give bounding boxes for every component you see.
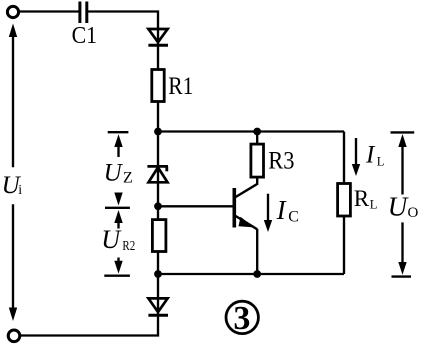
diode D2 (bottom, anode up): [148, 298, 168, 315]
label Ui: [2, 172, 23, 199]
svg-text:I: I: [276, 195, 288, 225]
arrow Ui top (pointing up at terminal): [9, 24, 17, 168]
label C1: [72, 23, 97, 49]
transistor Q1 base bar: [233, 188, 237, 228]
svg-text:3: 3: [233, 300, 250, 337]
label R1: [168, 73, 193, 100]
dimension arrow Uz up: [114, 134, 122, 157]
svg-text:U: U: [101, 225, 122, 254]
node D junction dot: [154, 270, 162, 278]
current arrow IL: [352, 138, 360, 176]
svg-text:U: U: [104, 160, 124, 187]
current arrow Ic: [264, 194, 272, 232]
dimension tick 2 (shared): [105, 207, 130, 209]
transistor Q1 emitter with arrow: [235, 216, 257, 275]
dimension arrow Ur2 down: [114, 258, 122, 274]
arrow Ui bottom (pointing down at terminal): [9, 204, 17, 321]
input terminal top-left: [7, 6, 18, 17]
node C junction dot: [154, 202, 162, 210]
wire right column (top rail to RL): [343, 132, 345, 184]
label R3: [268, 148, 294, 175]
wire RL to bottom rail: [343, 216, 345, 274]
wire base (node C to transistor base): [158, 205, 233, 207]
label Uz: [104, 160, 133, 187]
svg-text:L: L: [370, 197, 378, 211]
svg-text:C: C: [288, 209, 299, 226]
resistor R2: [152, 220, 166, 252]
svg-text:R2: R2: [122, 238, 135, 253]
diode D1 (top, anode up): [148, 29, 168, 45]
resistor RL: [338, 184, 351, 217]
label RL: [354, 186, 378, 212]
wire R2 to node D: [157, 252, 159, 275]
input terminal bottom-left: [8, 330, 20, 342]
node A junction dot: [154, 128, 162, 136]
node E junction dot (emitter): [253, 270, 261, 278]
svg-text:i: i: [18, 183, 22, 198]
dimension arrow Uo down: [398, 222, 406, 274]
wire bottom rail: [158, 273, 344, 275]
svg-text:R3: R3: [268, 148, 294, 175]
label Ur2: [101, 225, 135, 254]
dimension arrow Uz down: [114, 193, 122, 206]
wire node C to resistor R2: [157, 206, 159, 219]
zener diode DZ (cathode bar top): [147, 166, 168, 182]
node B junction dot (R3 top): [253, 128, 261, 136]
wire node D to diode D2: [157, 274, 159, 298]
dimension tick top of Uo: [391, 131, 415, 133]
svg-text:O: O: [408, 205, 419, 221]
dimension tick 3 (bottom of Ur2): [104, 275, 130, 277]
label IL: [365, 142, 384, 169]
label Ic: [276, 195, 299, 226]
capacitor C1: [80, 2, 87, 24]
svg-text:R: R: [354, 186, 370, 211]
wire top from capacitor to corner and down to diode: [88, 12, 158, 30]
wire node A to zener: [157, 132, 159, 183]
figure number 3 circled: [226, 300, 258, 337]
svg-text:I: I: [365, 142, 376, 169]
svg-text:R1: R1: [168, 73, 193, 100]
svg-text:C1: C1: [72, 23, 97, 49]
svg-text:U: U: [388, 192, 409, 222]
wire top from terminal to capacitor: [19, 10, 79, 12]
resistor R3: [251, 144, 264, 177]
wire zener to node C: [157, 182, 159, 206]
dimension tick bottom of Uo: [392, 275, 412, 277]
label Uo: [388, 192, 419, 222]
wire R1 to node A: [157, 102, 159, 132]
resistor R1: [152, 70, 164, 102]
dimension arrow Ur2 up: [114, 210, 122, 229]
wire R3 to collector: [235, 177, 257, 197]
wire diode D2 to bottom wire: [21, 315, 158, 335]
svg-text:Z: Z: [123, 169, 133, 186]
dimension tick 1 (top of Uz): [108, 131, 129, 133]
svg-text:L: L: [377, 155, 385, 169]
wire node B to resistor R3: [256, 132, 258, 145]
wire top rail: [158, 130, 344, 132]
wire diode D1 to resistor R1: [157, 45, 159, 69]
dimension arrow Uo up: [398, 134, 406, 195]
